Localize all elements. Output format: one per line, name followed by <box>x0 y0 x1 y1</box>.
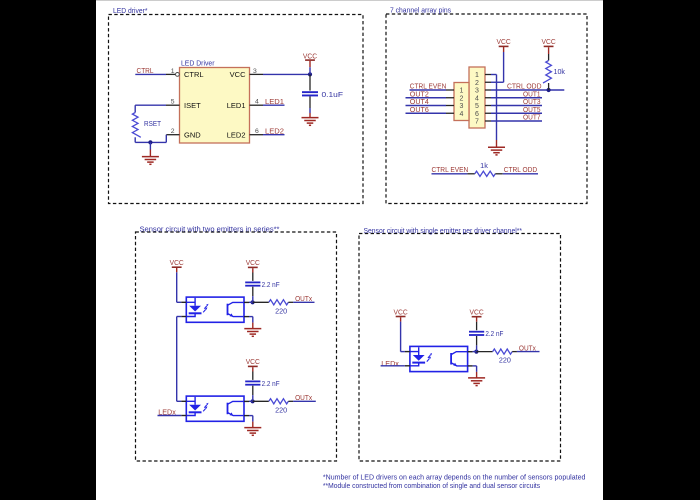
wire OUT6 <box>406 112 447 114</box>
power flag VCC (box1) <box>303 51 317 61</box>
wire LEDx to OK2 cathode <box>158 415 182 417</box>
OK1 pin stubs <box>181 302 249 316</box>
svg-text:LEDx: LEDx <box>381 359 399 368</box>
ground symbol (OK1) <box>244 328 261 330</box>
svg-text:LED driver*: LED driver* <box>113 6 148 15</box>
wire J1 pin1 to ground rail <box>491 75 497 148</box>
svg-text:LED1: LED1 <box>227 101 246 110</box>
capacitor OK3 2.2nF <box>469 318 484 352</box>
wire OUT3 <box>491 105 542 107</box>
wire to OUTx (OK1) <box>293 301 314 303</box>
svg-text:LED2: LED2 <box>227 130 246 139</box>
wire LED1 <box>263 104 285 106</box>
J2 pin stubs left <box>446 90 454 113</box>
svg-text:VCC: VCC <box>246 258 260 267</box>
section frame: LED driver <box>109 15 364 204</box>
wire emitter to ground (OK3) <box>473 366 477 378</box>
U1 pin 1 stub with bubble <box>166 73 179 77</box>
svg-text:4: 4 <box>460 111 464 118</box>
svg-text:LED Driver: LED Driver <box>181 59 215 68</box>
capacitor OK2 2.2nF <box>245 367 260 401</box>
power flag VCC (J1 pin2) <box>497 37 511 47</box>
ground symbol under C1 <box>302 117 319 119</box>
svg-text:RSET: RSET <box>144 119 161 128</box>
ground stem (box1) <box>149 142 151 156</box>
faint page top edge <box>96 0 603 2</box>
U1 pin 5 stub <box>166 104 180 106</box>
wire U1 pin3 to VCC node <box>263 73 310 75</box>
wire emitter to ground (OK2) <box>249 416 253 428</box>
wire ISET to RSET <box>135 105 166 112</box>
svg-text:3: 3 <box>460 103 464 110</box>
svg-text:2.2 nF: 2.2 nF <box>262 280 280 289</box>
svg-text:1: 1 <box>475 72 479 79</box>
svg-text:0.1uF: 0.1uF <box>322 90 344 99</box>
OK3 pin stubs <box>405 352 473 366</box>
node: CTRL ODD / 10k junction <box>547 88 551 92</box>
R3 stub left <box>467 173 474 175</box>
wire emitter to ground (OK1) <box>249 317 253 329</box>
wire C1 to ground <box>309 108 311 118</box>
capacitor OK1 2.2nF <box>245 268 260 302</box>
wire to OUTx (OK3) <box>517 351 540 353</box>
svg-text:4: 4 <box>475 95 479 102</box>
svg-text:CTRL: CTRL <box>184 70 204 79</box>
resistor R3 1k <box>475 171 495 176</box>
svg-text:ISET: ISET <box>184 101 201 110</box>
svg-text:10k: 10k <box>554 67 566 76</box>
U1 pin numbers <box>171 68 259 135</box>
svg-text:220: 220 <box>275 405 287 414</box>
wire OUT5 <box>491 112 542 114</box>
power flag VCC (OK1 RC) <box>246 258 260 268</box>
section frame: sensor circuit with two emitters in series <box>136 232 337 461</box>
section frame: sensor circuit with single emitter <box>359 234 561 462</box>
svg-text:2: 2 <box>475 80 479 87</box>
wire U1 GND pin down <box>150 135 166 143</box>
wire VCC to OK3 anode <box>401 317 405 351</box>
svg-text:7 channel array pins: 7 channel array pins <box>390 6 451 15</box>
J1 pin numbers 1-7 <box>475 72 479 126</box>
U1 pin names <box>184 70 246 139</box>
svg-text:CTRL ODD: CTRL ODD <box>504 165 537 174</box>
wire LEDx to OK3 cathode <box>381 365 405 367</box>
svg-text:**Module constructed from comb: **Module constructed from combination of… <box>323 481 540 490</box>
wire OUT1 <box>491 97 542 99</box>
OK2 pin stubs <box>181 401 249 415</box>
svg-text:CTRL: CTRL <box>137 66 154 75</box>
wire CTRL EVEN to R3 <box>432 173 468 175</box>
svg-text:2.2 nF: 2.2 nF <box>262 379 280 388</box>
wire CTRL EVEN <box>410 89 447 91</box>
capacitor C1 0.1uF <box>302 74 318 108</box>
power flag VCC (OK2 RC) <box>246 357 260 367</box>
wire VCC to OK1 anode <box>177 268 182 302</box>
svg-text:VCC: VCC <box>470 308 484 317</box>
U1 pin 6 stub <box>250 134 264 136</box>
svg-text:VCC: VCC <box>170 258 184 267</box>
ground symbol (OK2) <box>244 427 261 429</box>
white schematic page <box>96 0 603 500</box>
wire J1 pin2 to VCC <box>491 47 504 83</box>
svg-text:220: 220 <box>499 356 511 365</box>
svg-text:VCC: VCC <box>230 70 246 79</box>
svg-text:OUTx: OUTx <box>295 393 312 402</box>
wire collector to junction (OK1) <box>249 301 253 303</box>
svg-text:1k: 1k <box>480 161 488 170</box>
optocoupler reflectance sensor OK1 <box>186 297 244 322</box>
U1 pin 4 stub <box>250 104 264 106</box>
J1 pin stubs right <box>485 75 491 122</box>
svg-text:6: 6 <box>475 111 479 118</box>
node: ground junction <box>148 140 152 144</box>
wire R3 to CTRL ODD <box>503 173 538 175</box>
svg-text:Sensor circuit with two emitte: Sensor circuit with two emitters in seri… <box>140 224 280 233</box>
wire OUT4 <box>406 105 447 107</box>
wire RSET bottom to GND node <box>135 137 150 142</box>
svg-text:5: 5 <box>475 103 479 110</box>
U1 pin 3 stub <box>250 73 264 75</box>
J2 pin numbers 1-4 <box>460 88 464 118</box>
node: OK1 collector junction <box>251 300 255 304</box>
power flag VCC (box3 left) <box>170 258 184 268</box>
wire collector to junction (OK2) <box>249 400 253 402</box>
power flag VCC (OK3 RC) <box>470 308 484 318</box>
svg-text:VCC: VCC <box>394 307 408 316</box>
power flag VCC (10k pullup) <box>542 37 556 47</box>
resistor 220 (OK1) <box>253 301 269 303</box>
connector J2 4-pin body <box>454 83 469 121</box>
wire OUT7 <box>491 120 542 122</box>
wire collector to junction (OK3) <box>473 351 477 353</box>
svg-text:OUTx: OUTx <box>519 343 536 352</box>
wire LED2 <box>263 134 285 136</box>
resistor 220 (OK2) <box>253 400 269 402</box>
R3 stub right <box>495 173 502 175</box>
wire CTRL ODD <box>491 89 564 91</box>
VCC stem <box>309 61 311 75</box>
node: OK2 collector junction <box>251 399 255 403</box>
ground symbol (OK3) <box>468 377 485 379</box>
connector J1 7-pin body <box>469 67 485 128</box>
svg-text:220: 220 <box>275 306 287 315</box>
svg-text:VCC: VCC <box>542 37 556 46</box>
svg-text:1: 1 <box>460 88 464 95</box>
svg-text:VCC: VCC <box>303 51 317 60</box>
svg-text:OUTx: OUTx <box>295 294 312 303</box>
resistor R2 10k pullup <box>543 47 551 90</box>
power flag VCC (box4 left) <box>394 307 408 317</box>
wire OUT2 <box>406 97 447 99</box>
svg-text:Sensor circuit with single emi: Sensor circuit with single emitter per d… <box>364 226 523 235</box>
svg-text:CTRL EVEN: CTRL EVEN <box>432 165 469 174</box>
resistor 220 (OK3) <box>476 351 492 353</box>
op IC U1 LED driver body <box>180 68 250 144</box>
node: OK3 collector junction <box>474 350 478 354</box>
wire CTRL to U1 pin1 <box>135 73 166 75</box>
wire to OUTx (OK2) <box>293 400 316 402</box>
node: VCC junction <box>308 72 312 76</box>
svg-text:7: 7 <box>475 119 479 126</box>
svg-text:VCC: VCC <box>497 37 511 46</box>
resistor RSET <box>132 113 140 138</box>
svg-text:OUT7: OUT7 <box>523 113 541 122</box>
ground symbol (box1) <box>142 156 159 158</box>
svg-text:2: 2 <box>460 95 464 102</box>
wire OK1 cathode to OK2 anode (series emitters) <box>177 317 182 402</box>
svg-text:3: 3 <box>475 88 479 95</box>
svg-text:VCC: VCC <box>246 357 260 366</box>
optocoupler reflectance sensor OK3 <box>410 346 468 371</box>
svg-text:GND: GND <box>184 130 201 139</box>
section frame: 7 channel array pins <box>386 14 587 204</box>
svg-text:2.2 nF: 2.2 nF <box>485 329 503 338</box>
U1 pin 2 stub <box>166 134 179 136</box>
ground symbol (box2) <box>488 146 505 148</box>
optocoupler reflectance sensor OK2 <box>186 396 244 421</box>
